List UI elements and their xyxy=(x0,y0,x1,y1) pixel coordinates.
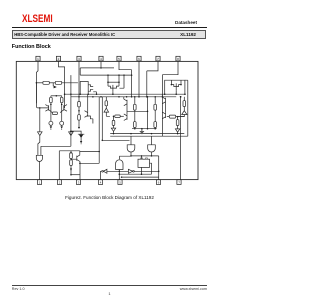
wire x102 long xyxy=(101,97,103,141)
wire x188 right drop xyxy=(185,80,188,136)
bus main y94.2 xyxy=(65,93,186,95)
junction bus1 x80.2 xyxy=(79,93,81,95)
resistor R6 xyxy=(78,102,81,107)
wire base feed left xyxy=(36,83,48,108)
wire D2 feed xyxy=(113,125,115,128)
resistor R13 xyxy=(183,101,186,107)
junction R11b xyxy=(154,128,156,130)
wire Q1 to bus xyxy=(87,91,89,94)
wire pin5 drop xyxy=(119,61,132,69)
wire R6-R7 xyxy=(78,107,80,115)
resistor R2 xyxy=(55,81,61,84)
rail y140.3 xyxy=(102,139,129,141)
transistor Q11b xyxy=(162,112,165,119)
resistor R9 xyxy=(134,104,137,110)
wire R11 mid xyxy=(154,110,156,122)
wire CS1 tail xyxy=(50,129,52,130)
junction bus1 x184.9 xyxy=(184,93,186,95)
pin box 1 (bottom) xyxy=(37,180,41,185)
wire x108 drop xyxy=(107,75,109,82)
wire tap below R row xyxy=(52,83,54,86)
current arrow I1 xyxy=(54,86,57,89)
diode D1 xyxy=(38,132,43,136)
wire R9-R10 xyxy=(134,110,136,122)
pin box 7 (bottom) xyxy=(177,180,181,185)
wire sub-bus y95.8 xyxy=(51,95,62,97)
wire pin15 long drop xyxy=(58,151,60,180)
junction bus1 x176.2 xyxy=(175,93,177,95)
junction coll L xyxy=(50,104,52,106)
resistor R5 xyxy=(52,112,57,115)
pin box 2 (top) xyxy=(56,56,60,61)
wire Q4 to bus xyxy=(175,90,177,94)
junction bus2 x134.8 xyxy=(134,96,136,98)
wire stub R4 xyxy=(61,96,63,98)
wire Q3 to bus xyxy=(112,92,114,94)
current source I4 arrow xyxy=(80,135,83,137)
wire cluster bridge xyxy=(165,80,185,94)
resistor R3 xyxy=(50,97,53,102)
current source CS2 xyxy=(60,121,64,125)
junction G3 out xyxy=(151,155,153,157)
wire pin3 long drop xyxy=(78,61,80,101)
wire G3 out xyxy=(151,152,153,156)
junction rail x177.6 xyxy=(177,133,179,135)
wire Q12 collector xyxy=(79,151,81,155)
junction rail x131 xyxy=(130,133,132,135)
wire R8 to U2 xyxy=(105,106,107,108)
wire pin7 drop xyxy=(147,61,158,71)
wire pin8 L-path xyxy=(162,61,178,74)
wire D1 out xyxy=(38,136,40,156)
wire Q11 emitter xyxy=(167,116,170,118)
node B tap xyxy=(39,107,41,109)
junction x119 bus75 xyxy=(118,74,120,76)
transistor Q6 xyxy=(45,105,48,112)
arrow CS2 xyxy=(61,126,63,128)
wire base link xyxy=(71,159,77,160)
wire FF feed xyxy=(141,156,143,159)
wire CS1 down xyxy=(50,124,52,127)
bus bottom y177.1 xyxy=(122,176,159,178)
transistor Q1 pair xyxy=(88,85,93,91)
wire G2 top feed xyxy=(130,136,132,145)
wire bank box xyxy=(80,82,88,95)
wire VR13 top xyxy=(183,97,185,101)
pin box 7 (top) xyxy=(156,56,160,61)
bus bottom y171.3 left xyxy=(107,170,128,172)
junction pin10 bus1 xyxy=(158,171,160,173)
junction x131.6 bus75 xyxy=(131,74,133,76)
junction x108 bus75 xyxy=(107,74,109,76)
wire x119 link xyxy=(118,75,120,82)
wire x146.8 drop xyxy=(146,71,148,97)
rail y136.2 xyxy=(110,135,188,137)
wire gate in B xyxy=(40,146,42,155)
junction chain end xyxy=(78,127,80,129)
transistor Q3 pair xyxy=(108,85,119,92)
junction pin4 bus xyxy=(100,67,102,69)
resistor R7 xyxy=(78,115,81,120)
header bar xyxy=(12,30,207,39)
wire x80 drop xyxy=(79,68,81,75)
wire FF out right xyxy=(150,163,152,174)
arrow CS1 xyxy=(50,126,52,128)
schematic figure xyxy=(0,0,219,300)
junction x147.5 xyxy=(147,128,149,130)
wire x124 stub xyxy=(120,75,125,88)
junction chain mid xyxy=(78,110,80,112)
bus y82.2 xyxy=(108,81,119,83)
wire G3 top feed xyxy=(151,136,153,145)
junction bus2 x119 xyxy=(118,96,120,98)
resistor R8 xyxy=(105,101,108,106)
current arrow I2 xyxy=(70,169,72,171)
buffer U2 xyxy=(104,108,109,112)
junction bus82 L xyxy=(107,81,109,83)
wire x180.6 long drop to pin9 xyxy=(180,97,182,180)
footer rev xyxy=(12,287,25,291)
junction base bus xyxy=(147,111,149,113)
junction G4 bus1 xyxy=(119,171,121,173)
junction cluster out xyxy=(180,96,182,98)
wire Q12 emitter col xyxy=(79,162,81,180)
junction bus2 x139 xyxy=(138,96,140,98)
wire R3 lead down xyxy=(50,103,52,122)
transistor Q11a xyxy=(162,97,165,104)
wire Q11a collector xyxy=(161,94,163,97)
wire Q9 base feed xyxy=(87,94,89,111)
current source I4 xyxy=(78,134,84,137)
wire VR8 top xyxy=(105,97,107,101)
page number xyxy=(0,291,219,296)
wire Q7 emitter diag xyxy=(60,110,64,113)
bus VCC y67.9 xyxy=(80,67,114,69)
pin box 1 (top) xyxy=(36,56,40,61)
resistor R11b xyxy=(154,122,157,128)
wire R16b down xyxy=(70,166,72,175)
bus main y96.8 xyxy=(71,96,176,98)
footer url xyxy=(0,287,207,291)
wire pin1 to node A xyxy=(36,61,38,82)
junction bus82 R xyxy=(118,81,120,83)
arrow I4 xyxy=(80,141,82,143)
wire pin2 step down xyxy=(59,61,65,108)
flip-flop FF1 xyxy=(138,159,150,167)
wire pin6 drop xyxy=(138,61,140,96)
junction bus2 x131.6 xyxy=(131,96,133,98)
wire pin13 up xyxy=(100,171,103,179)
wire Q1 out right xyxy=(93,92,96,94)
resistor R11 xyxy=(154,104,157,110)
diode D3 xyxy=(175,129,179,132)
wire x119 to steps xyxy=(118,82,120,86)
resistor R14 xyxy=(169,115,175,118)
wire R12b feed xyxy=(113,116,115,120)
wire pin4 drop xyxy=(100,61,102,68)
transistor Q10b xyxy=(124,114,127,121)
pin box 4 (top) xyxy=(99,56,103,61)
wire x131.6 drop xyxy=(131,70,133,97)
wire R15 down xyxy=(177,126,179,129)
AND gate G2 xyxy=(127,145,135,152)
current source CS1 xyxy=(49,121,53,125)
bus bottom y174.2 xyxy=(119,173,151,175)
transistor Q4 pair xyxy=(171,83,181,90)
junction node R14R xyxy=(177,116,179,118)
header title text xyxy=(14,32,115,37)
junction sub-bus xyxy=(56,95,58,97)
wire bridge drop R xyxy=(180,80,182,84)
wire x147.5 xyxy=(147,97,149,129)
wire CS2 tail xyxy=(61,129,63,130)
junction rail x151.5 xyxy=(151,133,153,135)
wire CS2 down xyxy=(61,124,63,127)
junction gnd xyxy=(141,128,143,130)
Datasheet label xyxy=(0,20,197,25)
junction R16 out xyxy=(70,174,72,176)
wire x162 long drop xyxy=(161,75,163,137)
bus bottom y171.3 right xyxy=(134,170,158,172)
pin box 3 (top) xyxy=(77,56,81,61)
wire U3 out xyxy=(178,115,185,117)
resistor R12b xyxy=(112,120,115,125)
junction bus1 x96.5 xyxy=(96,93,98,95)
wire G4 in xyxy=(120,156,131,159)
junction rail x113.5 xyxy=(113,133,115,135)
wire Q10 base bus xyxy=(127,110,148,112)
wire emitter link xyxy=(71,174,80,176)
buffer U3 xyxy=(182,111,187,115)
wire resistor row left xyxy=(36,82,43,84)
pin box 4 (bottom) xyxy=(98,180,102,185)
junction bus2 x180.6 xyxy=(180,96,182,98)
junction x99 collector bus xyxy=(98,151,100,153)
wire R4 lead down xyxy=(61,103,63,122)
AND gate G1 xyxy=(36,155,42,161)
header part number XL1192 xyxy=(0,32,196,37)
junction bus2 x101 xyxy=(100,96,102,98)
wire collector bus right xyxy=(80,151,99,153)
wire x99 long xyxy=(80,97,99,164)
junction bus2 x146.8 xyxy=(146,96,148,98)
junction mid rail xyxy=(134,128,136,130)
wire R16a top xyxy=(70,151,72,153)
junction x102 rail xyxy=(102,140,104,142)
junction Q9 out xyxy=(92,96,94,98)
resistor R1 xyxy=(43,81,49,84)
junction D4 tap xyxy=(70,130,72,132)
junction bus2 x126.6 xyxy=(126,96,128,98)
wire G1 out to pin16 xyxy=(38,162,40,180)
junction R12 node xyxy=(113,116,115,118)
junction bus3 xyxy=(121,176,123,178)
junction G2 out xyxy=(130,155,132,157)
figure caption xyxy=(0,195,219,200)
wire FF out1 xyxy=(141,167,143,174)
flip-flop notch 1 xyxy=(141,158,143,159)
junction FF bus2 xyxy=(141,173,143,175)
wire U2 out L xyxy=(106,112,110,116)
wire I4 tail xyxy=(80,137,82,141)
resistor R15 xyxy=(176,120,179,126)
wire stub R3 xyxy=(50,96,52,98)
junction coll R xyxy=(61,104,63,106)
wire Q9 emitter step xyxy=(88,116,93,124)
bus y128.7 xyxy=(132,128,157,130)
junction bus2 x79 xyxy=(78,96,80,98)
transistor Q9 xyxy=(85,111,88,118)
junction bus1 x112.9 xyxy=(112,93,114,95)
resistor R16a xyxy=(70,153,73,159)
junction bus2 x147.5 xyxy=(147,96,149,98)
wire VR9 top xyxy=(134,97,136,105)
wire Q10 bars join xyxy=(126,105,128,115)
junction x124 bus75 xyxy=(123,74,125,76)
wire R7 down xyxy=(78,120,80,127)
bus y146.3 xyxy=(41,145,71,147)
wire R13 to U3 xyxy=(183,107,185,111)
bus y75.1 xyxy=(80,74,131,76)
bus y150.8 xyxy=(59,150,80,152)
wire x108 to steps xyxy=(107,82,109,86)
wire Q10a collector xyxy=(123,97,125,99)
pin box 5 (bottom) xyxy=(118,180,122,185)
wire D2 out xyxy=(113,131,115,133)
resistor R4 xyxy=(60,97,63,102)
pin box 2 (bottom) xyxy=(57,180,61,185)
pin box 3 (bottom) xyxy=(76,180,80,185)
wire G4 out to pin12 xyxy=(118,170,120,180)
footer rule xyxy=(12,284,207,287)
wire Q11 bars join xyxy=(165,103,167,113)
AND gate G3 xyxy=(148,145,156,152)
wire VR11 top xyxy=(154,97,156,105)
logo XLSEMI xyxy=(22,13,53,25)
node A junction xyxy=(36,82,38,84)
wire pin10 drop xyxy=(158,156,160,180)
wire R14 right xyxy=(176,116,185,118)
wire between R1 R2 xyxy=(49,82,55,84)
pin box 6 (top) xyxy=(137,56,141,61)
flip-flop notch 2 xyxy=(146,158,148,159)
junction bus1 x88.2 xyxy=(87,93,89,95)
ground GND1 xyxy=(140,129,144,134)
wire x70.9 column xyxy=(70,75,72,146)
wire R11b down xyxy=(154,128,156,129)
junction bus2 x162.4 xyxy=(162,96,164,98)
pin box 5 (top) xyxy=(117,56,121,61)
junction FF top xyxy=(141,155,143,157)
inverter U4 xyxy=(103,169,107,173)
resistor R10 xyxy=(134,122,137,128)
junction emitter x99 link xyxy=(79,163,81,165)
wire D3 out xyxy=(177,132,179,133)
current arrow up I3 xyxy=(70,151,72,153)
wire R10 down xyxy=(134,128,136,129)
junction G4 bus2 xyxy=(119,173,121,175)
wire R15 feed xyxy=(177,117,179,120)
diode D2 xyxy=(111,128,115,131)
junction bridge R xyxy=(180,84,182,86)
wire R2 to Q bank xyxy=(62,82,78,84)
top rule xyxy=(12,27,207,28)
IC outline border xyxy=(16,61,198,179)
junction pin2 bus xyxy=(64,93,66,95)
wire node A down to diff bus xyxy=(35,83,37,103)
transistor Q7 xyxy=(64,105,67,112)
transistor Q12 xyxy=(77,155,80,162)
wire R12 right xyxy=(120,115,124,117)
resistor R16b xyxy=(70,160,73,166)
junction bus2 x155.2 xyxy=(154,96,156,98)
buffer U5 xyxy=(128,169,132,173)
wire D4 branch xyxy=(71,131,81,134)
wire Q6 emitter diag xyxy=(49,110,53,113)
wire diff tail down xyxy=(39,108,41,132)
wire G2 out xyxy=(130,152,132,156)
rail y133.6 xyxy=(110,133,184,135)
resistor R12 xyxy=(115,115,120,118)
bus y155.9 xyxy=(131,155,159,157)
pin box 6 (bottom) xyxy=(156,180,160,185)
junction bus1 x164.7 xyxy=(164,93,166,95)
junction bus1 x70.9 xyxy=(70,93,72,95)
wire bridge drop L xyxy=(170,80,172,84)
AND gate G4 xyxy=(116,160,123,170)
diode D4 xyxy=(69,132,74,136)
wire I4 end xyxy=(80,142,82,145)
section heading Function Block xyxy=(12,44,51,50)
pin box 8 (top) xyxy=(176,56,180,61)
transistor Q10a xyxy=(124,99,127,106)
junction bridge L xyxy=(171,84,173,86)
